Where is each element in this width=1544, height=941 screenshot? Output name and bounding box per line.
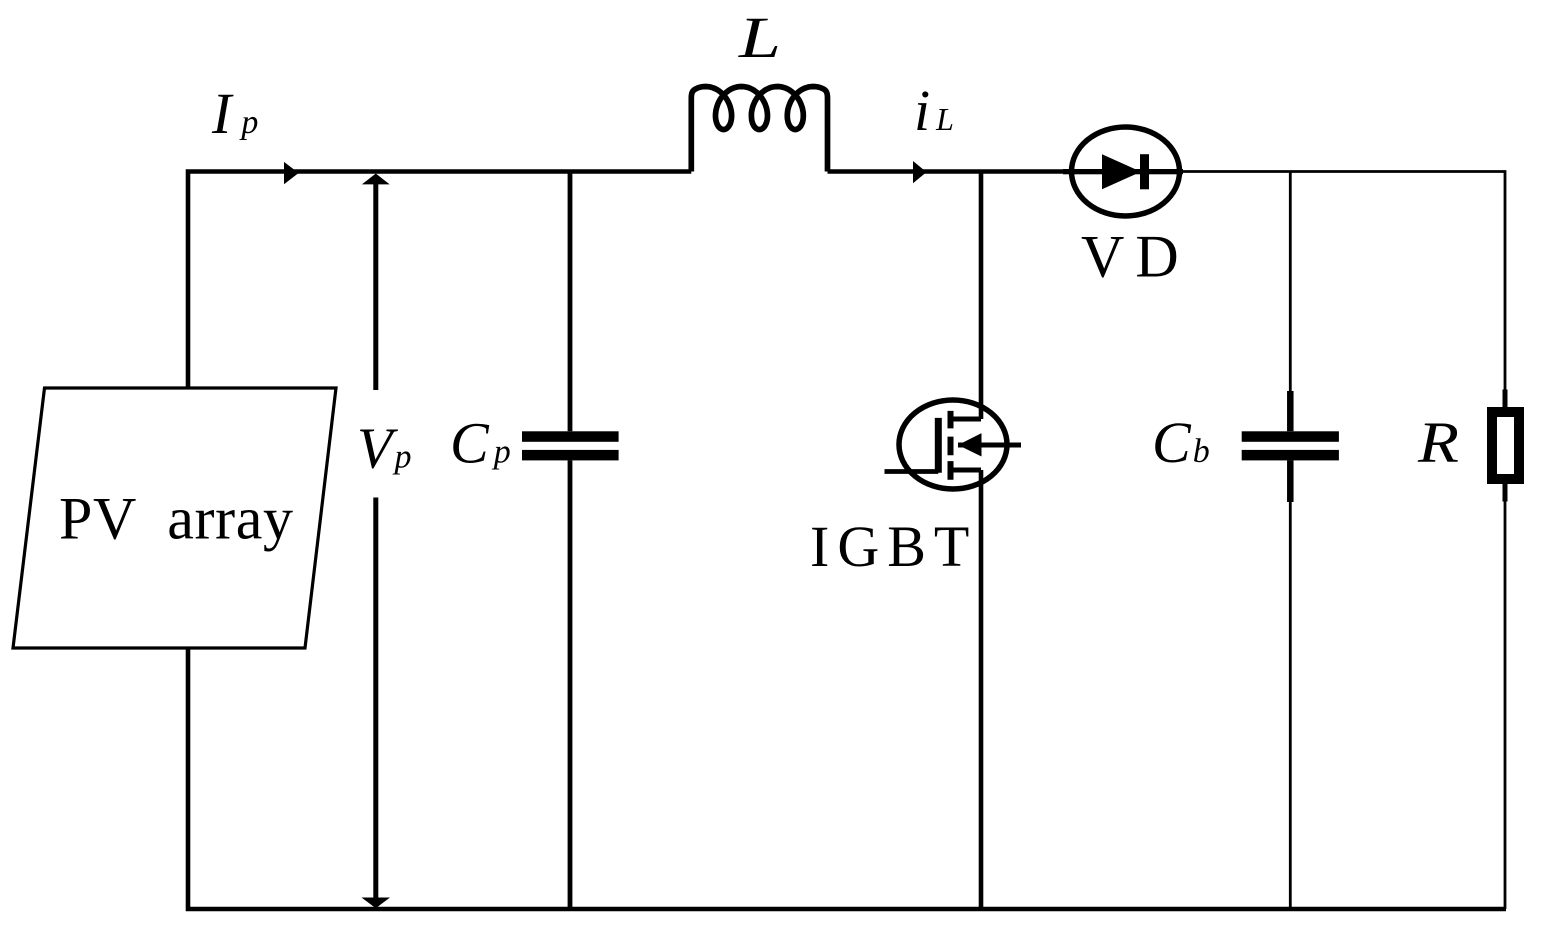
- svg-text:VD: VD: [1081, 224, 1190, 290]
- svg-text:L: L: [738, 5, 781, 70]
- svg-text:PV array: PV array: [59, 486, 293, 552]
- svg-text:R: R: [1417, 410, 1459, 475]
- svg-text:IGBT: IGBT: [810, 514, 977, 579]
